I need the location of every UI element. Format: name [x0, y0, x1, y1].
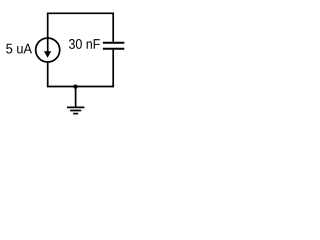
label 5 uA — [6, 44, 32, 54]
wire ground stem — [75, 87, 77, 108]
current source I1 — [36, 38, 60, 62]
wire right vertical lower — [112, 50, 114, 88]
capacitor C1 — [103, 43, 124, 49]
label 30 nF — [69, 39, 100, 49]
wire top horizontal — [47, 12, 114, 14]
junction dot — [73, 85, 77, 89]
wire left vertical lower — [47, 62, 49, 87]
wire right vertical upper — [112, 13, 114, 42]
wire left vertical upper — [47, 13, 49, 39]
ground — [67, 107, 85, 113]
wire bottom horizontal — [47, 86, 114, 88]
